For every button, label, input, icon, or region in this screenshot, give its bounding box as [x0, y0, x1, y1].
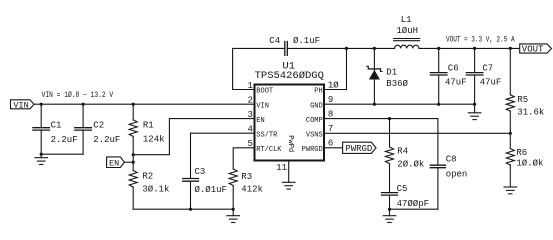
- capacitor C8 (open): [430, 119, 467, 210]
- ground under C1: [35, 154, 48, 164]
- svg-text:PWRGD: PWRGD: [345, 144, 372, 154]
- svg-text:11: 11: [276, 163, 287, 173]
- node R5 top: [509, 47, 512, 50]
- ground under C5: [383, 209, 396, 222]
- svg-text:VSNS: VSNS: [306, 132, 323, 140]
- svg-text:2.2uF: 2.2uF: [51, 135, 78, 145]
- resistor R6: [506, 133, 543, 187]
- wire C8 bottom to C5 bottom: [390, 208, 438, 210]
- svg-text:47ØØpF: 47ØØpF: [397, 199, 429, 209]
- wire EN tag to divider: [124, 161, 133, 163]
- svg-text:4: 4: [247, 125, 252, 135]
- port EN: [107, 157, 125, 169]
- svg-text:C8: C8: [446, 155, 457, 165]
- svg-text:3: 3: [247, 110, 252, 120]
- svg-text:412k: 412k: [241, 185, 263, 195]
- wire PH rail to L1: [347, 47, 395, 49]
- capacitor C4: [269, 36, 320, 55]
- svg-text:2.2uF: 2.2uF: [93, 135, 120, 145]
- svg-text:EN: EN: [256, 117, 264, 125]
- svg-text:3Ø.1k: 3Ø.1k: [142, 184, 169, 194]
- wire PWRGD pin6: [325, 147, 343, 149]
- node C7 bottom: [473, 103, 476, 106]
- svg-text:5: 5: [247, 139, 252, 149]
- wire BOOT pin1 to C4: [233, 48, 285, 89]
- wire GND rail pin9: [325, 103, 475, 105]
- svg-text:1Ø: 1Ø: [328, 80, 339, 90]
- svg-text:2Ø.Øk: 2Ø.Øk: [397, 160, 424, 170]
- node C3 bottom: [189, 208, 192, 211]
- resistor R4: [386, 119, 425, 170]
- node C1 bottom gnd: [40, 153, 43, 156]
- wire PH pin10 up: [325, 48, 347, 89]
- op IC U1 TPS54260DGQ body: [255, 85, 325, 161]
- wire EN node (pin3 to R1/R2 junction): [133, 119, 253, 155]
- svg-text:VOUT: VOUT: [522, 45, 544, 55]
- node VSNS/R5/R6: [509, 132, 512, 135]
- node R3 bottom: [232, 208, 235, 211]
- svg-text:PH: PH: [314, 88, 322, 96]
- svg-text:R2: R2: [142, 172, 153, 182]
- inductor L1: [394, 15, 420, 49]
- svg-text:GND: GND: [310, 102, 323, 110]
- svg-text:31.6k: 31.6k: [517, 107, 544, 117]
- ground under C7: [468, 104, 481, 119]
- svg-text:PWRGD: PWRGD: [302, 146, 323, 154]
- diode D1 B360: [367, 48, 409, 104]
- svg-text:L1: L1: [401, 15, 412, 25]
- port PWRGD: [343, 142, 376, 154]
- svg-text:EN: EN: [109, 158, 119, 168]
- svg-text:TPS5426ØDGQ: TPS5426ØDGQ: [255, 70, 324, 82]
- svg-text:C6: C6: [448, 64, 459, 74]
- svg-text:SS/TR: SS/TR: [256, 131, 278, 139]
- svg-text:2: 2: [247, 96, 252, 106]
- svg-text:COMP: COMP: [306, 117, 323, 125]
- node C5/C8 ground junction: [388, 208, 391, 211]
- node C6 bottom: [437, 103, 440, 106]
- svg-text:Ø.Ø1uF: Ø.Ø1uF: [195, 185, 227, 195]
- svg-text:C1: C1: [51, 121, 62, 131]
- svg-text:D1: D1: [386, 68, 397, 78]
- node EN junction: [132, 161, 135, 164]
- node D1 bottom: [373, 103, 376, 106]
- node C7 top: [473, 47, 476, 50]
- svg-text:R1: R1: [143, 120, 154, 130]
- node R4 top: [388, 117, 391, 120]
- svg-text:PwPd: PwPd: [286, 135, 294, 152]
- svg-text:C3: C3: [195, 167, 206, 177]
- wire VIN rail: [34, 103, 254, 105]
- wire VOUT rail: [419, 47, 520, 49]
- svg-text:C7: C7: [482, 64, 493, 74]
- node C1 top: [40, 103, 43, 106]
- wire C4 to PH node: [288, 47, 347, 49]
- ground under bottom rail: [227, 209, 240, 222]
- node C6 top: [437, 47, 440, 50]
- wire C1-C2 bottom join: [41, 153, 83, 155]
- svg-text:C4: C4: [269, 36, 280, 46]
- wire COMP pin8: [325, 118, 438, 120]
- wire bottom rail R2-C3-R3: [133, 208, 233, 210]
- wire SS/TR pin4: [191, 132, 254, 134]
- svg-text:C2: C2: [93, 121, 104, 131]
- svg-text:R3: R3: [241, 172, 252, 182]
- svg-text:Ø.1uF: Ø.1uF: [293, 36, 320, 46]
- svg-text:R4: R4: [397, 147, 408, 157]
- node C2 top: [82, 103, 85, 106]
- node C4/PH: [345, 47, 348, 50]
- svg-text:6: 6: [328, 139, 333, 149]
- svg-text:BOOT: BOOT: [256, 88, 273, 96]
- node R1/R2 junction: [132, 153, 135, 156]
- svg-text:124k: 124k: [143, 135, 165, 145]
- node R1 top: [132, 103, 135, 106]
- wire pin 11: [288, 162, 290, 183]
- svg-text:R5: R5: [517, 95, 528, 105]
- capacitor C6: [430, 48, 466, 104]
- svg-text:VIN: VIN: [13, 100, 28, 110]
- svg-text:1ØuH: 1ØuH: [396, 26, 418, 36]
- ground under pin 11: [282, 182, 295, 189]
- resistor R1: [129, 104, 164, 155]
- port VIN: [11, 100, 35, 111]
- svg-text:B36Ø: B36Ø: [386, 79, 408, 89]
- wire VSNS pin7: [325, 132, 511, 134]
- svg-text:47uF: 47uF: [445, 77, 467, 87]
- ground under R6: [504, 187, 517, 194]
- svg-text:9: 9: [328, 95, 333, 105]
- svg-text:1Ø.Øk: 1Ø.Øk: [516, 159, 543, 169]
- capacitor C3: [183, 133, 227, 209]
- capacitor C7: [466, 48, 501, 104]
- node D1 top: [373, 47, 376, 50]
- svg-text:7: 7: [328, 124, 333, 134]
- svg-text:47uF: 47uF: [480, 77, 502, 87]
- svg-text:VIN = 1Ø.8 − 13.2 V: VIN = 1Ø.8 − 13.2 V: [42, 91, 114, 100]
- svg-text:open: open: [446, 169, 468, 179]
- resistor R5: [506, 48, 544, 133]
- svg-text:8: 8: [328, 110, 333, 120]
- resistor R3: [229, 148, 263, 209]
- svg-text:R6: R6: [516, 148, 527, 158]
- svg-text:VOUT = 3.3 V, 2.5 A: VOUT = 3.3 V, 2.5 A: [446, 35, 515, 44]
- capacitor C2: [75, 104, 121, 154]
- capacitor C5: [382, 164, 430, 210]
- svg-text:VIN: VIN: [256, 102, 269, 110]
- port VOUT: [520, 44, 552, 55]
- svg-text:RT/CLK: RT/CLK: [256, 146, 282, 154]
- resistor R2: [129, 162, 169, 209]
- svg-text:C5: C5: [397, 184, 408, 194]
- capacitor C1: [33, 104, 78, 154]
